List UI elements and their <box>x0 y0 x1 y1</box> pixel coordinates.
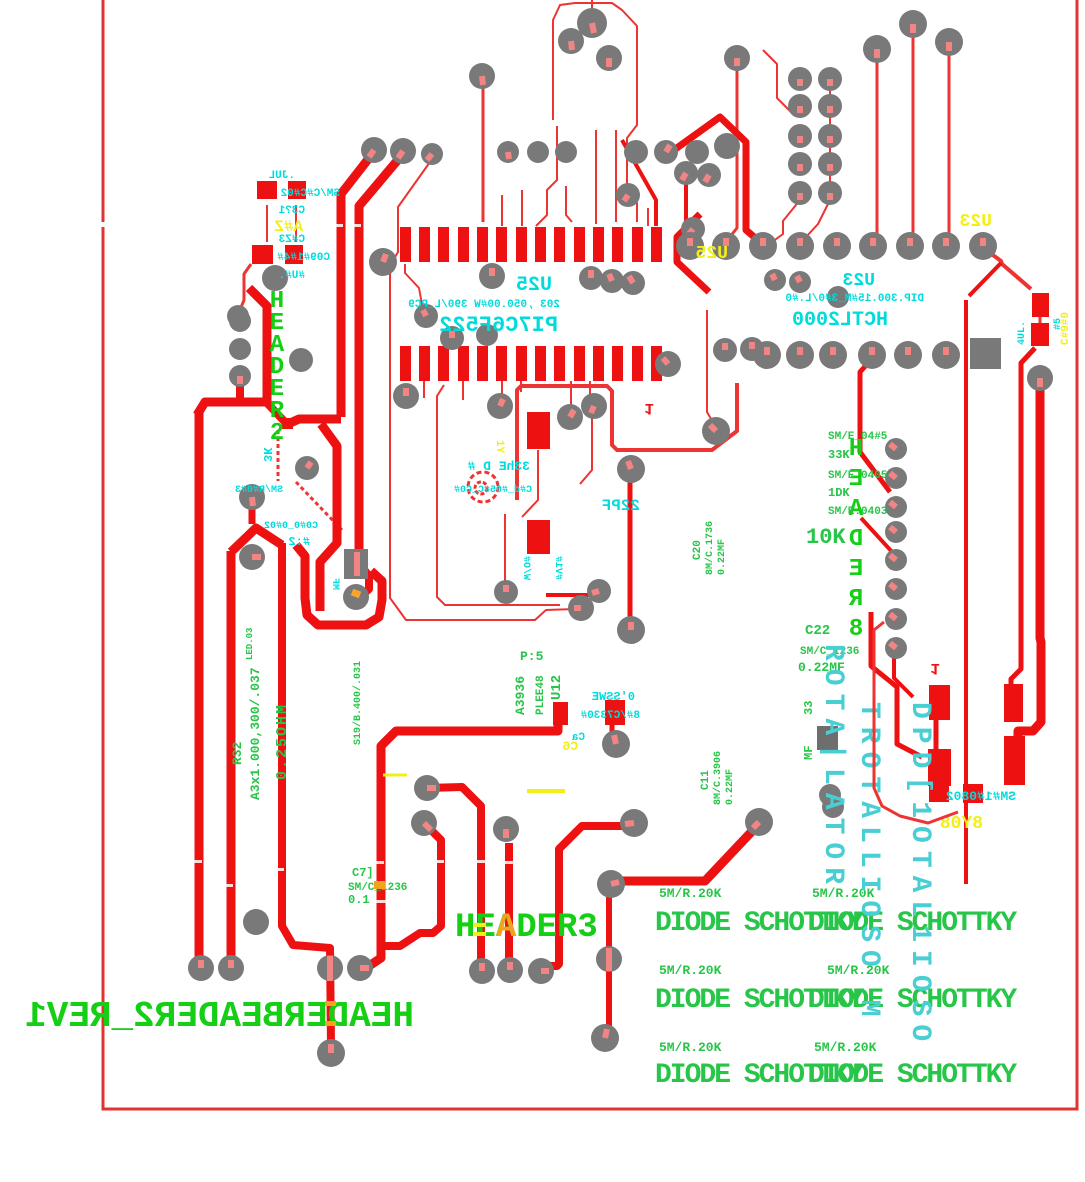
via <box>581 393 607 419</box>
wire <box>546 593 590 597</box>
wire <box>390 162 575 620</box>
svg-text:1: 1 <box>644 399 654 417</box>
header pin pad <box>818 67 842 91</box>
via <box>617 455 645 483</box>
U23 pin pad <box>896 232 924 260</box>
svg-text:C22: C22 <box>805 623 830 639</box>
via <box>497 957 523 983</box>
via <box>685 140 709 164</box>
wire <box>969 263 1001 296</box>
svg-text:U23: U23 <box>843 271 875 291</box>
svg-text:A3936: A3936 <box>513 676 528 715</box>
wire <box>381 823 441 946</box>
wire <box>505 843 513 962</box>
via <box>621 271 645 295</box>
wire <box>763 50 791 112</box>
via <box>1027 365 1053 391</box>
via square pad <box>344 549 368 579</box>
U25 pin 1 pad <box>400 227 411 262</box>
svg-text:0.1: 0.1 <box>348 893 370 907</box>
via <box>243 909 269 935</box>
U25 pin 25 pad <box>458 346 469 381</box>
U25 pin 2 pad <box>419 227 430 262</box>
via <box>227 305 249 327</box>
via <box>600 269 624 293</box>
via <box>421 143 443 165</box>
D1 pad <box>929 685 950 720</box>
svg-text:1DK: 1DK <box>828 486 850 500</box>
via <box>596 946 622 972</box>
wire <box>504 514 506 582</box>
U25 pin 28 pad <box>400 346 411 381</box>
wire <box>296 482 342 530</box>
svg-text:P:5: P:5 <box>520 649 544 664</box>
U25 pin 23 pad <box>496 346 507 381</box>
wire <box>566 186 572 222</box>
U23 pin pad <box>676 232 704 260</box>
via <box>654 140 678 164</box>
wire <box>266 205 268 242</box>
D2 pad <box>1004 684 1023 722</box>
via <box>885 521 907 543</box>
svg-text:R32: R32 <box>230 741 245 765</box>
wire <box>628 480 633 617</box>
wire <box>595 130 597 224</box>
svg-text:.JUL: .JUL <box>268 170 295 182</box>
wire <box>296 545 382 625</box>
wire <box>427 787 481 962</box>
wire <box>934 714 939 752</box>
via <box>819 784 841 806</box>
U25 pin 10 pad <box>574 227 585 262</box>
via <box>764 269 786 291</box>
wire <box>1011 348 1035 686</box>
U23 pin pad <box>932 232 960 260</box>
wire <box>874 622 884 630</box>
via <box>440 326 464 350</box>
svg-text:U25: U25 <box>516 274 552 297</box>
svg-text:SM/E.0405: SM/E.0405 <box>828 470 888 482</box>
wire <box>647 208 649 226</box>
header pin pad <box>788 67 812 91</box>
svg-text:C#d_#05#C_C0#: C#d_#05#C_C0# <box>454 484 532 496</box>
via <box>713 338 737 362</box>
via <box>369 248 397 276</box>
wire <box>423 381 425 398</box>
wire <box>553 3 637 222</box>
svg-text:4UL.: 4UL. <box>1017 321 1028 345</box>
wire <box>501 381 503 396</box>
svg-text:#5: #5 <box>1053 318 1064 330</box>
via <box>579 266 603 290</box>
U23 pin pad <box>932 341 960 369</box>
wire <box>369 724 558 966</box>
via <box>587 579 611 603</box>
svg-text:22PF: 22PF <box>602 497 640 515</box>
wire <box>359 155 402 552</box>
yellow dash <box>527 789 565 793</box>
wire <box>405 264 423 310</box>
svg-text:W/O#: W/O# <box>520 556 532 580</box>
wire <box>240 264 251 310</box>
via <box>885 438 907 460</box>
via <box>262 265 288 291</box>
wire <box>894 652 913 697</box>
wire <box>1039 317 1042 325</box>
wire <box>195 410 204 961</box>
U25 pin 8 pad <box>535 227 546 262</box>
svg-text:C09#1#4#: C09#1#4# <box>277 252 330 264</box>
svg-text:PLEE48: PLEE48 <box>535 675 547 715</box>
svg-text:33: 33 <box>802 701 816 715</box>
via <box>414 304 438 328</box>
header pin pad <box>818 94 842 118</box>
svg-text:0.22MF: 0.22MF <box>717 539 728 575</box>
svg-text:5M/R.20K: 5M/R.20K <box>659 963 722 978</box>
R5 pad <box>963 784 983 803</box>
svg-text:0.25OHM: 0.25OHM <box>274 703 291 780</box>
wire <box>610 724 615 738</box>
via <box>555 141 577 163</box>
header pin pad <box>818 152 842 176</box>
via <box>822 796 844 818</box>
C1 pad <box>252 245 273 264</box>
wire <box>520 381 522 392</box>
via <box>596 45 622 71</box>
C5 pad <box>1031 323 1049 346</box>
wire <box>772 200 800 242</box>
U25 pin 24 pad <box>477 346 488 381</box>
wire <box>249 503 256 524</box>
svg-text:LED.03: LED.03 <box>245 628 255 660</box>
via <box>885 467 907 489</box>
C5 pad <box>1032 293 1049 317</box>
wire <box>986 250 1031 289</box>
wire <box>606 892 609 1033</box>
U25 pin 13 pad <box>632 227 643 262</box>
U25 pin 11 pad <box>593 227 604 262</box>
U23 pin 1 square pad <box>970 338 1001 369</box>
R1 pad <box>257 181 277 199</box>
U12 pad <box>605 700 625 725</box>
wire <box>729 66 737 238</box>
wire <box>288 419 341 424</box>
svg-text:C11: C11 <box>700 770 712 790</box>
svg-text:#V1#: #V1# <box>552 556 563 580</box>
wire <box>437 385 560 605</box>
svg-text:ROTA|LATOR: ROTA|LATOR <box>817 644 848 892</box>
via <box>863 35 891 63</box>
via <box>885 549 907 571</box>
wire <box>677 214 709 292</box>
wire <box>570 381 572 405</box>
svg-text:33K: 33K <box>828 448 850 462</box>
U25 pin 15 pad <box>651 346 662 381</box>
via <box>487 393 513 419</box>
wire <box>876 60 879 236</box>
U25 pin 9 pad <box>554 227 565 262</box>
U25 pin 5 pad <box>477 227 488 262</box>
svg-text:A3x1.000,300/.037: A3x1.000,300/.037 <box>248 667 263 800</box>
wire <box>580 416 592 484</box>
U25 pin 26 pad <box>438 346 449 381</box>
via <box>347 955 373 981</box>
C15 pad <box>527 412 550 449</box>
svg-text:3K: 3K <box>260 447 274 462</box>
U23 pin pad <box>749 232 777 260</box>
via <box>229 310 251 332</box>
U25 pin 4 pad <box>458 227 469 262</box>
svg-text:C#Z3: C#Z3 <box>278 234 305 246</box>
U23 pin pad <box>894 341 922 369</box>
via <box>239 484 265 510</box>
svg-text:5M/R.20K: 5M/R.20K <box>659 1040 722 1055</box>
U23 pin pad <box>786 341 814 369</box>
via <box>655 351 681 377</box>
via <box>295 456 319 480</box>
svg-text:E: E <box>849 556 863 583</box>
via <box>789 271 811 293</box>
spiral trace <box>468 472 498 502</box>
wire <box>948 52 951 238</box>
C15 pad <box>527 520 550 554</box>
via <box>827 286 849 308</box>
svg-text:MF: MF <box>802 746 816 760</box>
U25 pin 16 pad <box>632 346 643 381</box>
svg-text:5M/R.20K: 5M/R.20K <box>659 886 722 901</box>
svg-text:1: 1 <box>930 659 940 677</box>
via <box>697 163 721 187</box>
svg-text:SM/C#C#02: SM/C#C#02 <box>281 188 340 200</box>
U25 pin 27 pad <box>419 346 430 381</box>
svg-text:DIP.300.15#M_3#0/L.#0: DIP.300.15#M_3#0/L.#0 <box>785 293 924 305</box>
via <box>343 584 369 610</box>
svg-text:DIODE SCHOTTKY: DIODE SCHOTTKY <box>808 1060 1017 1091</box>
wire <box>707 310 714 424</box>
U23 pin pad <box>969 232 997 260</box>
U25 pin 7 pad <box>516 227 527 262</box>
U23 pin pad <box>819 341 847 369</box>
via <box>239 544 265 570</box>
wire <box>249 288 267 402</box>
via <box>479 263 505 289</box>
U23 pin pad <box>753 341 781 369</box>
wire <box>684 180 688 225</box>
svg-text:D: D <box>849 526 863 553</box>
wire <box>829 85 831 190</box>
svg-text:U12: U12 <box>549 675 565 700</box>
via <box>899 10 927 38</box>
U25 pin 21 pad <box>535 346 546 381</box>
via <box>527 141 549 163</box>
U25 pin 20 pad <box>554 346 565 381</box>
via <box>390 138 416 164</box>
via <box>885 608 907 630</box>
svg-text:HEADER3: HEADER3 <box>455 909 598 947</box>
U25 pin 14 pad <box>651 227 662 262</box>
via <box>317 1039 345 1067</box>
via <box>411 810 437 836</box>
via <box>497 141 519 163</box>
wire <box>591 0 593 14</box>
via <box>591 1024 619 1052</box>
svg-text:0'SSWE: 0'SSWE <box>592 690 635 704</box>
U12 pad <box>553 702 568 725</box>
via <box>188 955 214 981</box>
svg-text:0.22MF: 0.22MF <box>725 769 736 805</box>
U25 pin 17 pad <box>612 346 623 381</box>
via <box>229 365 251 387</box>
wire <box>277 430 280 481</box>
svg-text:33hE D #: 33hE D # <box>467 459 530 474</box>
header pin pad <box>818 181 842 205</box>
svg-text:C0#0_0#02: C0#0_0#02 <box>264 521 318 532</box>
wire <box>236 384 244 399</box>
via <box>681 217 705 241</box>
via <box>528 958 554 984</box>
wire <box>522 450 538 517</box>
via <box>476 324 498 346</box>
wire <box>197 402 266 415</box>
via <box>616 183 640 207</box>
wire <box>667 117 760 242</box>
via <box>674 161 698 185</box>
U25 pin 3 pad <box>438 227 449 262</box>
svg-text:SM/E.0403: SM/E.0403 <box>828 506 888 518</box>
svg-text:SM/R#0#3: SM/R#0#3 <box>235 484 283 496</box>
svg-text:A: A <box>496 909 517 947</box>
header pin pad <box>788 181 812 205</box>
U25 pin 22 pad <box>516 346 527 381</box>
border gap <box>100 222 107 227</box>
via <box>740 337 764 361</box>
svg-text:SM/E_04#5: SM/E_04#5 <box>828 431 888 443</box>
R5 pad <box>929 783 949 802</box>
wire <box>341 153 373 417</box>
wire <box>295 205 297 242</box>
via <box>885 496 907 518</box>
header pin pad <box>788 94 812 118</box>
via <box>935 28 963 56</box>
svg-text:HEADERBEADER2_REV1: HEADERBEADER2_REV1 <box>25 996 414 1037</box>
via <box>557 404 583 430</box>
C1 pad <box>285 245 303 264</box>
svg-text:HCTL2000: HCTL2000 <box>792 309 888 332</box>
svg-text:TROTALLIOSO M: TROTALLIOSO M <box>853 702 884 1024</box>
svg-text:U25: U25 <box>696 244 728 264</box>
wire <box>871 612 922 757</box>
svg-text:10K: 10K <box>806 525 846 550</box>
via <box>568 595 594 621</box>
via <box>885 578 907 600</box>
svg-text:C7]: C7] <box>352 866 374 880</box>
wire <box>1018 390 1041 740</box>
via <box>620 809 648 837</box>
R1 pad <box>288 181 306 199</box>
svg-text:U23: U23 <box>960 212 992 232</box>
via <box>617 616 645 644</box>
svg-text:S19/B.400/.031: S19/B.400/.031 <box>352 661 364 745</box>
orange text-over-trace marks <box>325 1001 336 1006</box>
U25 pin 12 pad <box>612 227 623 262</box>
via <box>414 775 440 801</box>
wire <box>874 630 958 823</box>
D4 pad <box>1004 736 1025 785</box>
wire <box>860 362 890 492</box>
U23 pin pad <box>859 232 887 260</box>
via <box>289 348 313 372</box>
svg-text:8M/C.1736: 8M/C.1736 <box>704 521 716 575</box>
svg-text:1Y: 1Y <box>493 440 505 454</box>
via <box>317 955 343 981</box>
header pin pad <box>818 124 842 148</box>
via <box>229 338 251 360</box>
via <box>702 417 730 445</box>
via <box>494 580 518 604</box>
wire <box>227 551 236 962</box>
via <box>624 140 648 164</box>
via <box>597 870 625 898</box>
via <box>393 383 419 409</box>
svg-text:8: 8 <box>849 616 863 643</box>
via <box>714 133 740 159</box>
U23 pin pad <box>712 232 740 260</box>
via <box>724 45 750 71</box>
wire <box>231 528 282 552</box>
svg-text:PI7C6F522: PI7C6F522 <box>439 313 558 338</box>
via <box>493 816 519 842</box>
R3 pad <box>282 418 293 429</box>
svg-text:DPD[1OTAL1IOSO: DPD[1OTAL1IOSO <box>904 702 935 1049</box>
wire <box>482 88 485 222</box>
via <box>558 28 584 54</box>
pad square <box>817 726 838 750</box>
pad <box>577 8 607 38</box>
svg-text:C20: C20 <box>692 540 704 560</box>
header pin pad <box>788 124 812 148</box>
U25 pin 18 pad <box>593 346 604 381</box>
U23 pin pad <box>823 232 851 260</box>
wire <box>521 190 523 226</box>
via <box>361 137 387 163</box>
wire <box>546 826 624 966</box>
svg-text:5M/R.20K: 5M/R.20K <box>814 1040 877 1055</box>
wire <box>517 383 737 500</box>
D3 pad <box>928 749 951 786</box>
U23 pin pad <box>786 232 814 260</box>
wire <box>912 34 915 238</box>
via <box>885 637 907 659</box>
svg-text:#U#.: #U#. <box>279 270 305 282</box>
wire <box>536 126 557 226</box>
wire <box>266 402 285 422</box>
via <box>469 63 495 89</box>
trace gaps <box>191 860 202 863</box>
header pin pad <box>788 152 812 176</box>
svg-text:C6: C6 <box>562 739 578 754</box>
wire <box>462 381 464 400</box>
wire <box>615 827 756 881</box>
wire <box>615 130 617 222</box>
U23 pin pad <box>858 341 886 369</box>
svg-text:#:2: #:2 <box>288 535 310 549</box>
wire <box>358 562 369 598</box>
svg-text:C3?1: C3?1 <box>278 205 305 217</box>
svg-text:MF: MF <box>329 578 340 590</box>
via <box>745 808 773 836</box>
svg-text:R: R <box>848 586 863 613</box>
wire <box>282 543 331 1046</box>
